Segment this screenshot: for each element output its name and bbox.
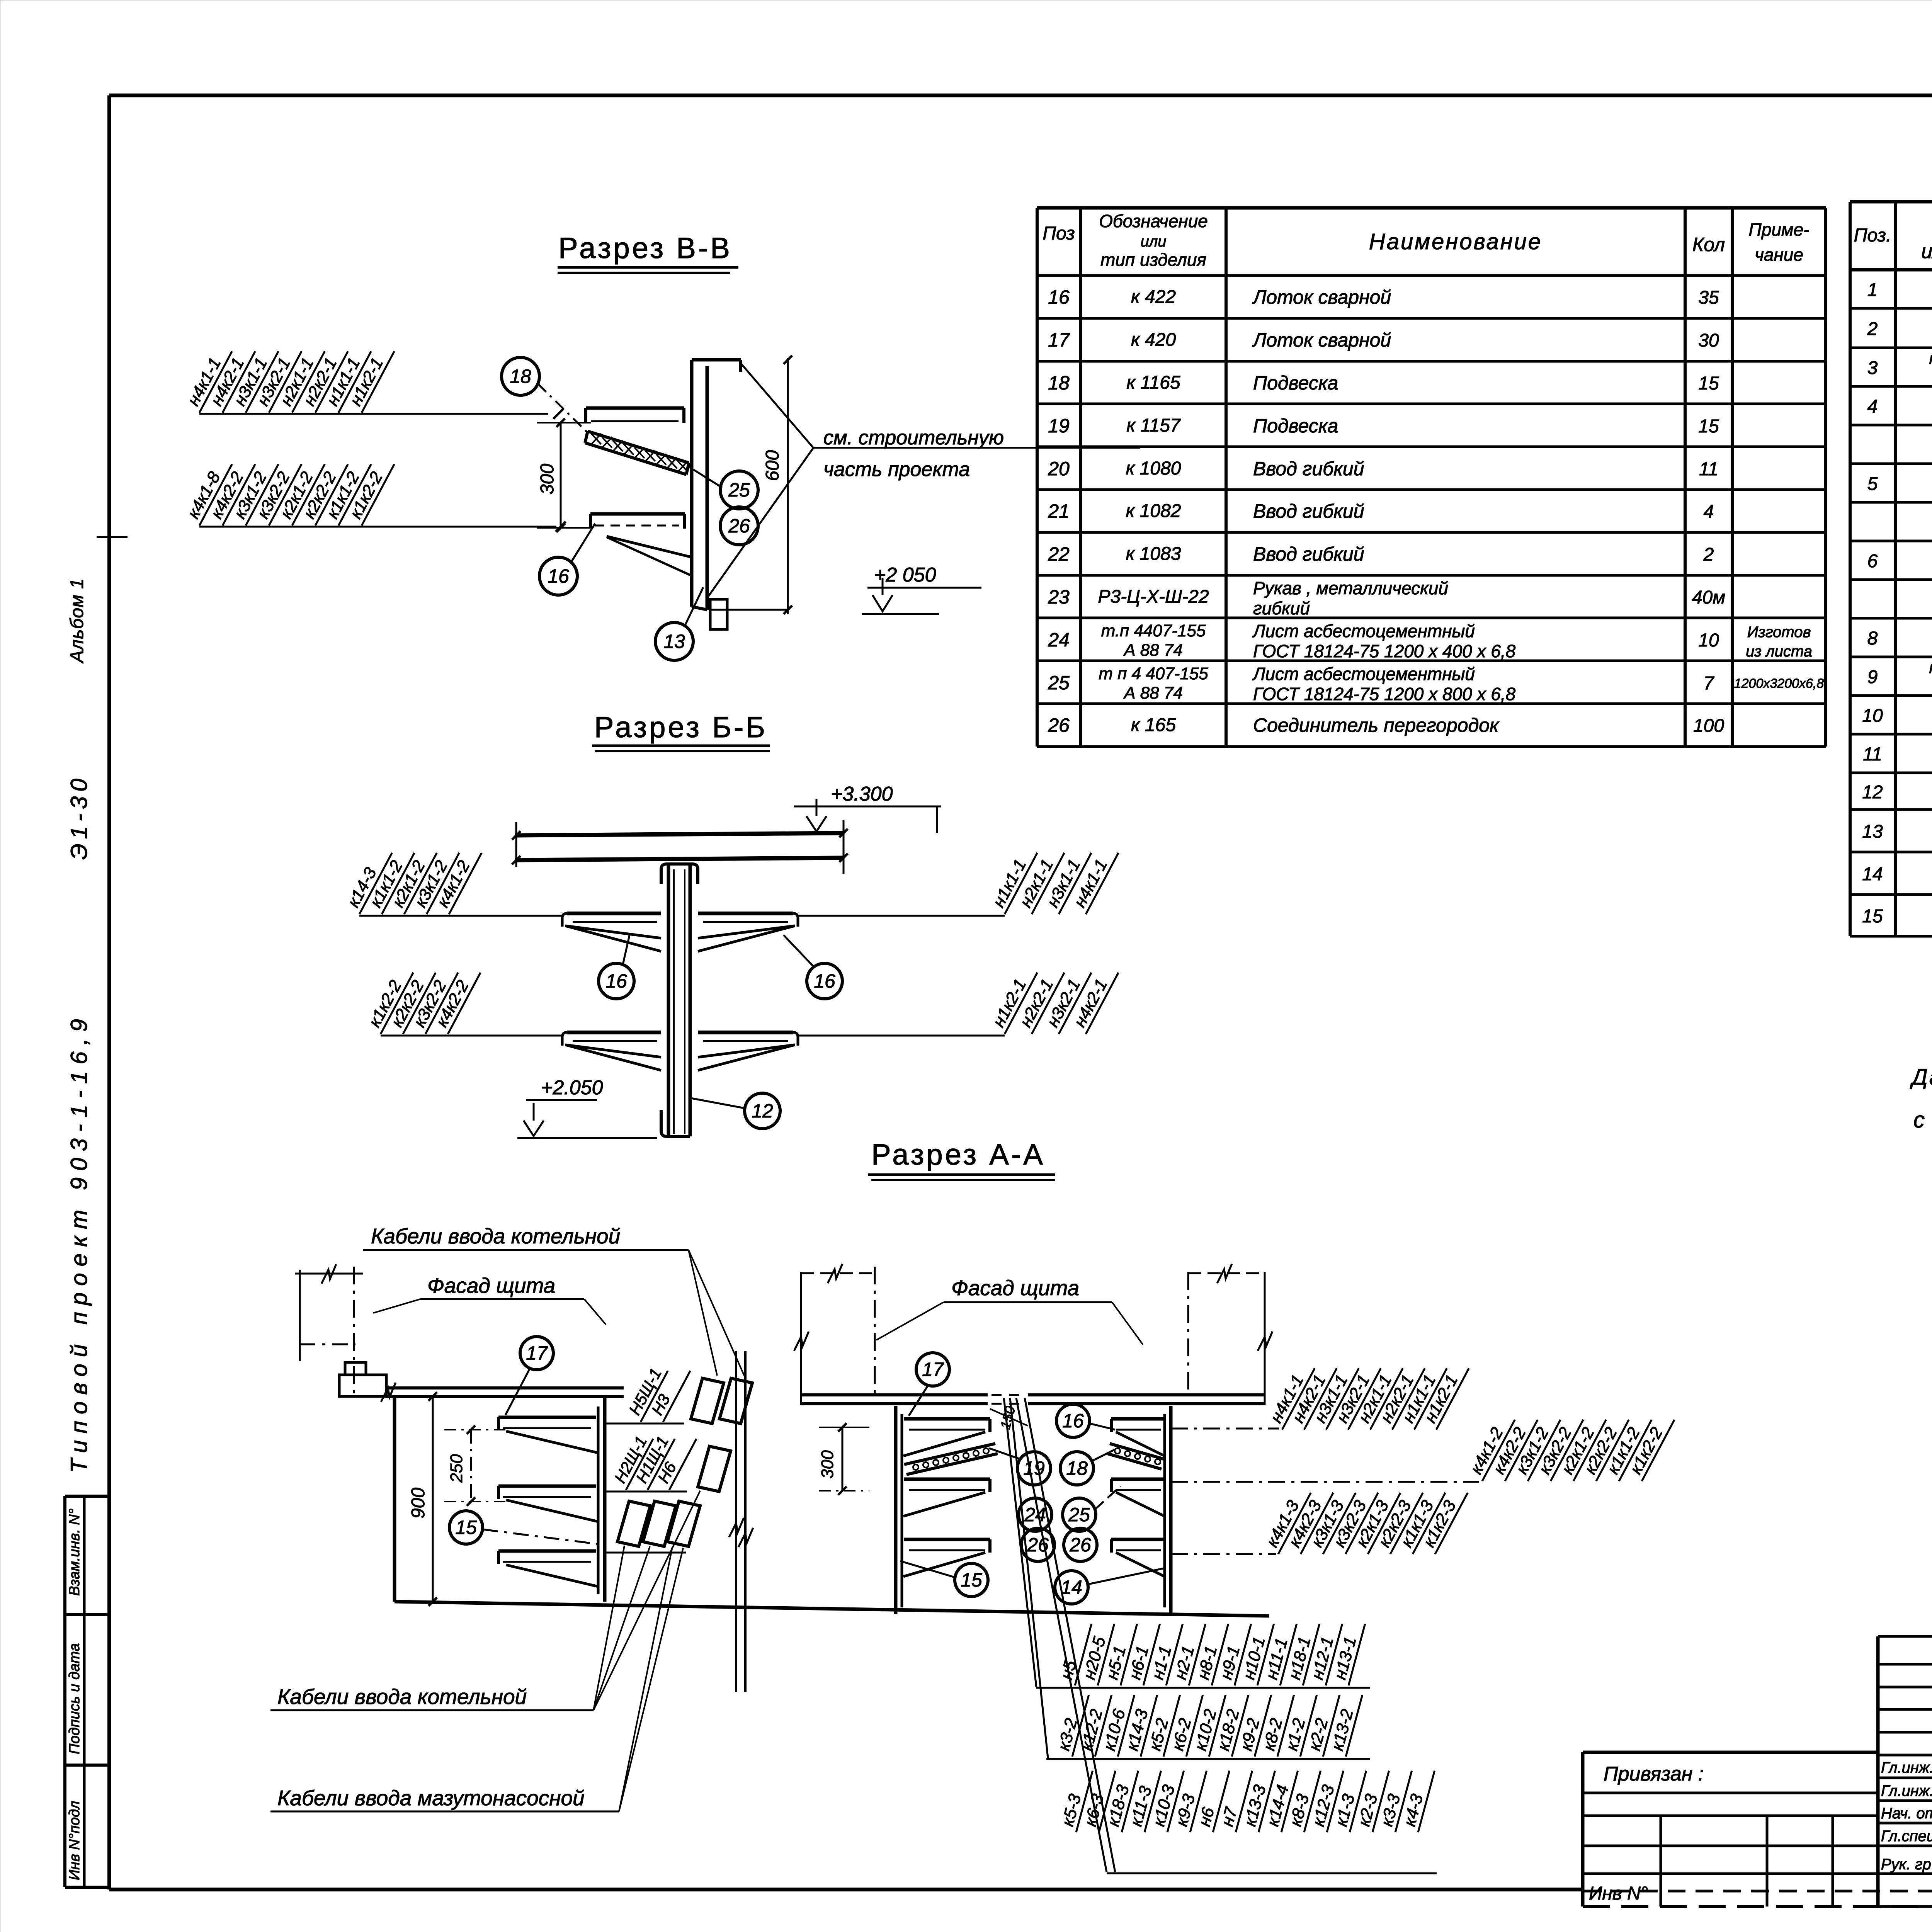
svg-text:1: 1 [1867, 280, 1878, 300]
svg-text:Гл.спец.: Гл.спец. [1881, 1828, 1932, 1845]
svg-text:26: 26 [1069, 1534, 1091, 1556]
svg-text:Инв N°: Инв N° [1589, 1883, 1648, 1904]
svg-text:с черт. Э1-28 , Э1-29: с черт. Э1-28 , Э1-29 [1913, 1107, 1932, 1133]
svg-text:16: 16 [1062, 1410, 1084, 1432]
V-V circle 18 [502, 357, 539, 395]
svg-text:100: 100 [1693, 716, 1724, 736]
svg-text:17: 17 [526, 1342, 548, 1364]
A-A right trays right side [1111, 1417, 1164, 1421]
svg-text:18: 18 [510, 366, 531, 387]
A-A right hatched tray right [1110, 1444, 1164, 1459]
sheet frame [109, 94, 1932, 97]
V-V panel [690, 360, 694, 607]
svg-text:Поз.: Поз. [1854, 225, 1891, 246]
A-A circle 17 left [520, 1337, 553, 1370]
svg-text:9: 9 [1867, 667, 1878, 687]
A-A right tag stack 3 [1171, 1553, 1276, 1555]
svg-text:15: 15 [455, 1517, 477, 1538]
svg-text:25: 25 [728, 479, 750, 501]
A-A dim 900 [432, 1396, 434, 1602]
A-A right dim frame [800, 1272, 802, 1405]
svg-text:7: 7 [1704, 673, 1715, 694]
svg-text:Нач. отд.: Нач. отд. [1881, 1805, 1932, 1822]
svg-text:250: 250 [447, 1454, 466, 1483]
svg-text:к 1157: к 1157 [1126, 415, 1181, 436]
svg-text:Инв N°подл: Инв N°подл [66, 1801, 83, 1880]
svg-text:Ввод гибкий: Ввод гибкий [1253, 458, 1364, 480]
B-B upper arm left 16 [567, 912, 661, 915]
left margin attribute strip [65, 1495, 109, 1498]
right spec table grid [1849, 202, 1852, 936]
svg-text:14: 14 [1061, 1577, 1082, 1598]
A-A left anchor detail [299, 1270, 301, 1361]
svg-text:т.п. 4407-235-006: т.п. 4407-235-006 [1929, 349, 1932, 368]
svg-text:к 420: к 420 [1131, 330, 1176, 350]
B-B lower arm left 16 [567, 1031, 661, 1034]
svg-text:Ввод гибкий: Ввод гибкий [1253, 543, 1364, 565]
svg-text:Гл.инж.пр: Гл.инж.пр [1881, 1782, 1932, 1799]
svg-text:Подвеска: Подвеска [1253, 415, 1338, 437]
V-V cable tag stack lower [182, 455, 232, 526]
svg-text:тип изделия: тип изделия [1100, 250, 1206, 270]
svg-text:к 422: к 422 [1131, 287, 1176, 307]
svg-text:Лист асбестоцементный: Лист асбестоцементный [1252, 621, 1475, 641]
svg-text:13: 13 [1862, 821, 1883, 842]
B-B lower arm right 16 [698, 1031, 793, 1034]
svg-text:Лоток сварной: Лоток сварной [1252, 329, 1391, 351]
A-A dim 150 [990, 1409, 1028, 1426]
svg-text:Подпись и дата: Подпись и дата [66, 1643, 83, 1754]
svg-text:4: 4 [1704, 502, 1714, 522]
svg-text:Ввод гибкий: Ввод гибкий [1253, 500, 1364, 522]
V-V see-construction note [741, 363, 813, 448]
svg-text:17: 17 [922, 1359, 944, 1380]
svg-text:300: 300 [537, 464, 558, 495]
svg-text:Привязан :: Привязан : [1604, 1763, 1704, 1785]
svg-text:2: 2 [1703, 544, 1714, 565]
svg-text:15: 15 [1698, 416, 1719, 437]
V-V upper leader [199, 413, 548, 415]
svg-text:2: 2 [1867, 319, 1878, 339]
V-V foot block 13 [710, 599, 727, 629]
svg-text:16: 16 [1048, 286, 1070, 308]
B-B left tag stack 1 [342, 844, 392, 914]
svg-text:10: 10 [1698, 630, 1719, 651]
svg-text:Взам.инв. N°: Взам.инв. N° [66, 1509, 83, 1596]
svg-text:чание: чание [1755, 245, 1803, 265]
svg-text:Наименование: Наименование [1369, 229, 1542, 254]
svg-text:т.п.4 407-235-025: т.п.4 407-235-025 [1929, 658, 1932, 677]
B-B ceiling beam [515, 833, 844, 835]
A-A dim 300 right [842, 1427, 844, 1491]
V-V lower tray 16 [590, 512, 685, 516]
svg-text:или: или [1140, 233, 1166, 250]
svg-text:11: 11 [1863, 744, 1882, 765]
svg-text:21: 21 [1048, 500, 1070, 522]
V-V circle 13 [655, 622, 693, 660]
svg-text:5: 5 [1867, 474, 1878, 494]
svg-text:т.п 4407-155: т.п 4407-155 [1101, 621, 1206, 640]
svg-text:Альбом 1: Альбом 1 [67, 578, 87, 664]
B-B right tag stack 2 [987, 963, 1037, 1034]
svg-text:25: 25 [1048, 672, 1070, 694]
svg-text:18: 18 [1066, 1458, 1088, 1479]
svg-text:13: 13 [663, 631, 685, 652]
svg-text:15: 15 [1862, 906, 1883, 927]
A-A left tag group 2 [605, 1491, 687, 1493]
A-A bottom tag row B [1046, 1758, 1370, 1760]
svg-text:Лоток сварной: Лоток сварной [1252, 286, 1391, 308]
svg-text:к 1165: к 1165 [1126, 372, 1180, 393]
svg-text:40м: 40м [1692, 587, 1725, 608]
svg-text:Рук. гр: Рук. гр [1881, 1856, 1931, 1873]
svg-text:8: 8 [1867, 628, 1878, 649]
A-A circle 15 left [449, 1511, 483, 1544]
left spec table grid [1036, 208, 1039, 747]
A-A right hatched tray left [904, 1444, 995, 1464]
frame alignment tick [97, 536, 128, 538]
svg-text:Лист асбестоцементный: Лист асбестоцементный [1252, 664, 1475, 684]
svg-text:12: 12 [1862, 782, 1883, 803]
B-B circle 16 right [807, 963, 842, 999]
A-A left trays 17 [498, 1416, 596, 1419]
svg-text:30: 30 [1698, 330, 1719, 351]
A-A right panel [894, 1406, 898, 1614]
A-A right trays left side [904, 1417, 990, 1421]
svg-text:26: 26 [728, 515, 750, 537]
svg-text:20: 20 [1048, 458, 1070, 480]
svg-text:Данный чертеж рассматрив: Данный чертеж рассматривать совместно [1910, 1065, 1932, 1090]
svg-text:900: 900 [408, 1488, 429, 1519]
A-A match line [735, 1351, 737, 1692]
svg-text:6: 6 [1867, 551, 1878, 571]
svg-text:24: 24 [1024, 1504, 1046, 1526]
svg-text:ГОСТ 18124-75 1200 х 400 х: ГОСТ 18124-75 1200 х 400 х 6,8 [1253, 641, 1516, 661]
svg-text:+2.050: +2.050 [541, 1077, 603, 1099]
svg-text:19: 19 [1048, 415, 1070, 437]
V-V circle 25 [720, 471, 758, 509]
svg-text:Приме-: Приме- [1749, 219, 1810, 240]
A-A bottom tag row C [1107, 1872, 1437, 1874]
svg-text:Разрез В-В: Разрез В-В [558, 232, 732, 265]
svg-text:4: 4 [1867, 396, 1878, 417]
svg-text:14: 14 [1862, 864, 1883, 884]
V-V cable tag stack upper [182, 342, 232, 413]
svg-text:Фасад щита: Фасад щита [427, 1274, 555, 1298]
svg-text:19: 19 [1023, 1458, 1045, 1479]
svg-text:Гл.инж.: Гл.инж. [1881, 1759, 1932, 1776]
svg-text:Соединитель перегородок: Соединитель перегородок [1253, 714, 1500, 736]
svg-text:+3.300: +3.300 [831, 783, 893, 805]
A-A left ceiling [385, 1386, 624, 1389]
B-B circle 12 [745, 1093, 780, 1129]
V-V circle 26 [720, 507, 758, 545]
svg-text:24: 24 [1048, 629, 1070, 651]
svg-text:10: 10 [1862, 706, 1883, 726]
svg-text:15: 15 [1698, 373, 1719, 394]
svg-text:16: 16 [605, 970, 627, 992]
svg-text:Типовой проект 903-1-16,9: Типовой проект 903-1-16,9 [66, 1012, 92, 1473]
V-V dim 300 [560, 423, 562, 528]
V-V lower leader [199, 526, 556, 528]
svg-text:Кабели ввода котельной: Кабели ввода котельной [371, 1224, 620, 1248]
svg-text:23: 23 [1048, 586, 1070, 608]
title block: signature table [1876, 1636, 1880, 1906]
B-B column 12 [667, 866, 670, 1136]
V-V brace [607, 536, 692, 557]
A-A bottom tag row A [1036, 1687, 1370, 1689]
svg-text:26: 26 [1048, 714, 1070, 736]
svg-text:из листа: из листа [1746, 643, 1812, 660]
svg-text:Кабели ввода котельной: Кабели ввода котельной [277, 1685, 527, 1709]
svg-text:300: 300 [818, 1450, 837, 1479]
svg-text:22: 22 [1048, 543, 1070, 565]
B-B column foot [661, 1110, 690, 1136]
B-B left tag stack 2 [363, 963, 413, 1034]
A-A left tag group 3 parallelograms [617, 1501, 650, 1546]
svg-text:Подвеска: Подвеска [1253, 372, 1338, 394]
svg-text:35: 35 [1698, 287, 1719, 308]
svg-text:см. строительную: см. строительную [823, 427, 1004, 449]
svg-text:Разрез Б-Б: Разрез Б-Б [594, 711, 767, 744]
A-A dim 250 [470, 1430, 472, 1502]
svg-text:Кабели ввода мазутонасос: Кабели ввода мазутонасосной [277, 1786, 585, 1810]
привязан block [1583, 1751, 1878, 1754]
svg-text:Э1-30: Э1-30 [66, 774, 92, 860]
svg-text:гибкий: гибкий [1253, 598, 1310, 618]
V-V hatched tray 18/25 [588, 431, 689, 463]
svg-text:15: 15 [961, 1569, 982, 1591]
A-A right tag stack 2 [1171, 1481, 1479, 1483]
svg-text:3: 3 [1867, 358, 1878, 378]
B-B upper arm right 16 [698, 912, 793, 915]
svg-text:Разрез А-А: Разрез А-А [871, 1138, 1045, 1171]
B-B hanger bracket [661, 864, 698, 884]
svg-text:12: 12 [752, 1100, 773, 1122]
V-V top tray 17 [586, 406, 684, 410]
svg-text:Поз: Поз [1043, 223, 1075, 244]
A-A right tag stack 1 [1171, 1428, 1279, 1430]
svg-text:часть проекта: часть проекта [823, 458, 970, 481]
svg-text:11: 11 [1699, 459, 1718, 480]
A-A left tag group 1 [605, 1423, 684, 1425]
A-A floor line [395, 1602, 1269, 1616]
svg-text:т п 4 407-155: т п 4 407-155 [1099, 664, 1208, 683]
svg-text:Обозначение: Обозначение [1099, 211, 1208, 231]
svg-text:16: 16 [548, 565, 569, 587]
A-A left panel [393, 1396, 396, 1602]
A-A right ceiling [802, 1393, 988, 1396]
svg-text:к 165: к 165 [1131, 715, 1176, 735]
svg-text:или тип изделия: или тип изделия [1921, 240, 1932, 263]
svg-text:Кол: Кол [1692, 234, 1725, 255]
svg-text:1200х3200х6,8: 1200х3200х6,8 [1734, 676, 1824, 691]
svg-text:к 1080: к 1080 [1126, 458, 1181, 479]
svg-text:16: 16 [814, 970, 835, 992]
svg-text:25: 25 [1068, 1504, 1090, 1526]
A-A right circles [916, 1353, 949, 1386]
svg-text:Рукав , металлический: Рукав , металлический [1253, 578, 1448, 598]
V-V circle 16 [539, 557, 577, 595]
svg-text:Р3-Ц-Х-Ш-22: Р3-Ц-Х-Ш-22 [1098, 587, 1209, 607]
svg-text:Фасад щита: Фасад щита [951, 1276, 1079, 1300]
svg-text:А 88 74: А 88 74 [1123, 684, 1183, 702]
svg-text:18: 18 [1048, 372, 1070, 394]
V-V dim 600 [787, 358, 789, 614]
svg-text:к 1083: к 1083 [1126, 544, 1181, 564]
svg-text:600: 600 [762, 450, 783, 481]
svg-text:26: 26 [1027, 1534, 1049, 1556]
A-A cable diagonals to stacks [1004, 1398, 1036, 1687]
svg-text:17: 17 [1048, 329, 1070, 351]
svg-text:к 1082: к 1082 [1126, 501, 1181, 521]
svg-text:А 88 74: А 88 74 [1123, 641, 1183, 660]
B-B right tag stack 1 [987, 844, 1037, 914]
svg-text:ГОСТ 18124-75 1200 х 800 х: ГОСТ 18124-75 1200 х 800 х 6,8 [1253, 684, 1516, 704]
B-B circle 16 left [599, 963, 634, 999]
svg-text:Изготов: Изготов [1747, 624, 1811, 641]
